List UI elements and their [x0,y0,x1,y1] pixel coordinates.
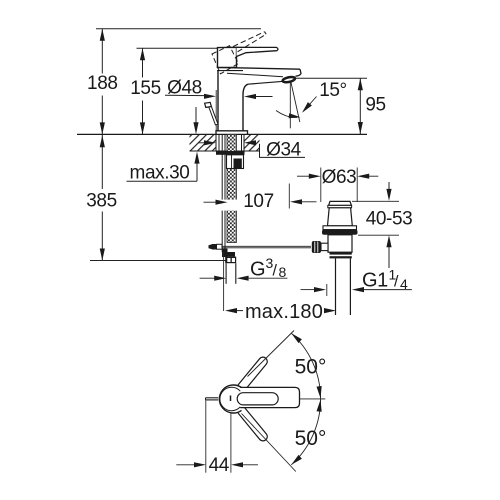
stream swivel arc [276,111,297,118]
plan view circle body white [217,384,246,413]
waste tailpipe [335,258,337,315]
svg-text:15°: 15° [319,80,347,101]
svg-text:/: / [394,274,399,291]
dimension 188 line [101,29,103,74]
50 degree radial line up [248,331,295,377]
faucet base plate [216,131,248,135]
waste flange [323,226,357,230]
plan view circle keyhole arc [219,385,241,413]
svg-text:G: G [250,259,265,281]
pop-up waste dome [328,208,353,226]
40-53 top arrow [388,182,390,190]
counter hatch right [244,134,260,151]
svg-text:155: 155 [130,78,161,99]
svg-text:8: 8 [279,264,287,280]
spout perspective line [227,73,283,77]
waste body diameter arrow [301,289,315,291]
15 degree leader [304,97,317,112]
rod clamp screw [209,244,213,249]
G3/8 tube [225,263,227,284]
max180 left extension line [223,252,225,311]
shank hole left wall [215,134,217,151]
braided hose column [227,134,236,242]
dimension 385 line [101,135,103,189]
spout tip [296,69,302,76]
flexible hose pair [221,134,223,252]
spout inner curve [243,84,248,131]
pop-up rod horizontal [216,245,311,247]
svg-text:44: 44 [209,455,230,476]
G3/8 nut [225,257,236,264]
dimension 44 [176,464,194,466]
faucet body left edge [217,71,219,131]
handle lever bar [237,47,278,56]
svg-text:/: / [273,263,278,280]
plan pull rod [206,397,219,399]
faucet spout top line [217,67,300,69]
svg-text:385: 385 [86,191,117,212]
Ø48 extension line [215,90,217,131]
Ø63 extension lines [320,168,322,203]
pop-up waste cap [329,201,352,205]
extension line top of raised handle (188 ref) [96,28,261,30]
extension line spout height (95 ref) [296,77,367,79]
svg-text:G1: G1 [362,270,388,292]
svg-text:40-53: 40-53 [366,208,413,229]
braid gap at 107 row [221,200,238,211]
waste side knob [312,241,321,253]
mounting washer below counter [216,151,245,155]
dashed raised lever [233,32,265,47]
spout underside [248,81,284,84]
40-53 top extension [352,200,399,202]
40-53 bottom arrow [388,247,390,269]
50 degree radial line down [242,414,296,472]
svg-text:Ø34: Ø34 [266,140,302,161]
pop-up pull rod knob [205,102,212,107]
Ø34 label box [260,144,306,158]
dimension 107 [204,201,217,203]
svg-text:50°: 50° [295,356,327,379]
dimension 95 line [359,78,361,134]
water stream 15 degree line [291,83,300,123]
Ø48 right arrow [256,96,273,98]
swivel arc [291,333,320,465]
svg-text:50°: 50° [295,427,327,450]
waste body [328,235,352,252]
Ø34 arrows [198,142,206,144]
counter hatch left [190,134,217,151]
plan rotated lever up [236,355,269,393]
svg-text:max.30: max.30 [130,162,190,183]
svg-text:max.180: max.180 [245,301,323,323]
dimension max.180 [225,308,237,313]
dashed raised handle base [212,46,239,74]
dimension 155 line [142,48,144,77]
aerator [282,76,295,83]
counter top line [77,133,367,135]
plan rotated lever down [236,405,269,443]
waste rings [330,252,352,254]
svg-text:188: 188 [87,73,118,94]
water stream vertical line [289,83,291,129]
svg-text:95: 95 [365,95,385,116]
hose elbow piece [222,249,228,258]
44 extension lines [205,400,207,473]
107 extension line [288,184,290,209]
shank hole right wall [243,134,245,151]
Ø63 arrows [297,175,310,177]
braid end ferrule [228,252,236,257]
max.30 upper arrow [195,107,197,123]
svg-text:Ø63: Ø63 [322,167,357,188]
max.30 lower arrow [196,163,198,181]
extension line top of handle (155 ref) [137,47,218,49]
waste gasket [322,230,358,235]
faucet neck bottom line [217,70,243,72]
pop-up pull rod arm [209,107,218,125]
40-53 bottom extension [358,234,399,236]
G3/8 arrows [200,277,215,279]
handle base [218,47,237,67]
plan straight lever outer [240,387,299,407]
plan view inner circle [220,387,240,410]
plan lever slot [237,393,278,405]
counter bottom line [190,150,260,152]
svg-text:107: 107 [243,191,274,212]
reference line bottom of hoses (385 ref) [90,260,226,262]
plan centerline [300,398,326,400]
plan center mark [230,396,232,402]
mounting nut [227,155,244,169]
shank tube lines [218,134,220,151]
